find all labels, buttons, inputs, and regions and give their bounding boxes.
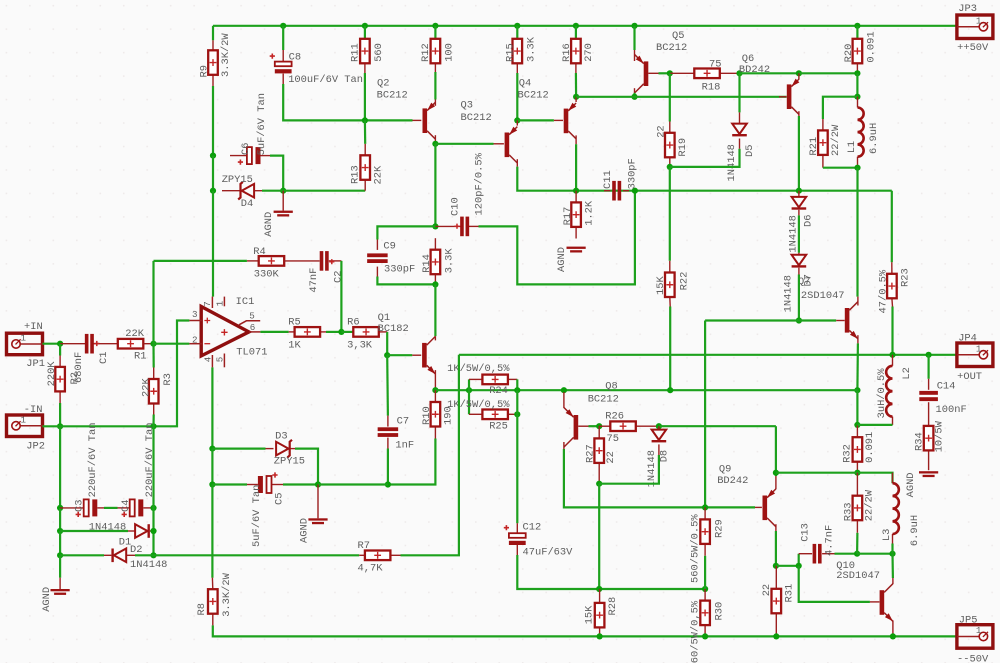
diode D8 <box>652 430 667 440</box>
wire -50V bottom rail <box>213 625 957 636</box>
wire pin Q2 base <box>413 119 422 121</box>
wire Q2 to Q3 base <box>435 143 493 145</box>
junction R28 bottom <box>597 633 603 639</box>
resistor R34 pins <box>928 414 930 426</box>
wire driver base rail y=96.8 <box>576 96 787 98</box>
junction D6 top <box>796 188 802 194</box>
svg-text:5: 5 <box>249 310 255 321</box>
svg-text:6: 6 <box>250 322 256 333</box>
wire input gnd column <box>59 426 61 508</box>
wire <box>326 331 341 333</box>
svg-text:BC212: BC212 <box>588 394 619 406</box>
wire <box>387 449 389 485</box>
svg-text:R28: R28 <box>607 597 619 616</box>
resistor R3 <box>149 379 159 404</box>
wire <box>152 415 154 427</box>
junction Q9 emitter row <box>773 470 779 476</box>
transistor Q9 <box>763 496 768 521</box>
svg-text:Q5: Q5 <box>672 30 684 42</box>
junction D7/Q7 base <box>796 317 802 323</box>
junction L1 bottom <box>854 165 860 171</box>
resistor R13 pins <box>364 144 366 155</box>
wire Q7/Q9 base column <box>704 321 706 508</box>
junction R15 top <box>514 23 520 29</box>
resistor R22 pins <box>669 261 671 273</box>
svg-text:R13: R13 <box>349 165 361 184</box>
diode D2 pins <box>104 554 111 556</box>
svg-text:C2: C2 <box>333 271 345 283</box>
wire to R4 <box>154 260 247 262</box>
wire <box>59 403 61 426</box>
op-amp pin 4 <box>211 355 213 367</box>
connector JP1 <box>7 333 43 355</box>
junction R24 right <box>514 387 520 393</box>
transistor Q7 emitter stub <box>857 335 859 343</box>
svg-text:D5: D5 <box>744 145 756 157</box>
wire to C9 top <box>377 226 435 239</box>
svg-text:R30: R30 <box>713 602 725 621</box>
wire R26 row to Q9 emitter corner <box>659 425 776 427</box>
svg-text:330pF: 330pF <box>627 158 639 189</box>
capacitor C11 <box>612 181 616 201</box>
junction Q7 emitter/driver rail <box>854 387 860 393</box>
transistor Q10 collector stub <box>892 578 894 584</box>
junction R12 top <box>432 23 438 29</box>
svg-text:4.7nF: 4.7nF <box>823 525 835 556</box>
junction R27/D8 bottom <box>596 481 602 487</box>
transistor Q8 emitter stub <box>563 392 565 408</box>
wire pin Q10 base <box>870 601 880 603</box>
op-amp pin 1 <box>223 297 225 307</box>
svg-text:+OUT: +OUT <box>957 371 982 383</box>
svg-text:47/0.5%: 47/0.5% <box>878 269 890 313</box>
svg-text:D6: D6 <box>802 215 814 227</box>
wire <box>364 73 366 120</box>
svg-text:C3: C3 <box>74 500 86 512</box>
resistor R31 pins <box>775 566 777 589</box>
resistor R4 pins <box>247 260 259 262</box>
svg-text:C9: C9 <box>383 240 395 252</box>
wire <box>468 379 470 390</box>
transistor Q6 emitter stub <box>798 73 800 79</box>
wire +50V top rail <box>213 25 957 27</box>
svg-text:JP5: JP5 <box>959 615 978 627</box>
junction R11/R13 <box>362 117 368 123</box>
svg-text:BD242: BD242 <box>739 64 770 76</box>
svg-text:C4: C4 <box>120 500 132 512</box>
resistor R19 pins <box>669 122 671 133</box>
resistor R24 <box>482 375 508 385</box>
transistor Q9 collector stub <box>775 524 777 531</box>
svg-text:75: 75 <box>607 433 619 445</box>
wire R7 to output rail corner <box>401 355 459 556</box>
wire R27 column down <box>598 484 600 589</box>
resistor R18 <box>694 69 720 79</box>
capacitor C8 <box>275 62 292 67</box>
wire to L3 <box>857 473 892 484</box>
wire to D3 <box>212 448 265 450</box>
svg-text:22: 22 <box>656 125 668 137</box>
junction R14/C9 bottom <box>432 281 438 287</box>
op-amp pin 6 <box>249 331 261 333</box>
wire Q10 collector up <box>891 554 894 578</box>
svg-text:0.091: 0.091 <box>865 31 877 62</box>
wire JP2 to op-amp pin3 <box>43 321 190 427</box>
capacitor C13 <box>813 544 817 564</box>
resistor R22 <box>665 273 675 298</box>
wire C6 to D4 node <box>270 156 283 191</box>
wire <box>659 72 670 74</box>
resistor R2 pins <box>59 356 61 367</box>
inductor L1 <box>858 108 864 157</box>
op-amp pin 3 <box>189 320 202 322</box>
wire C2 down to output <box>340 261 342 332</box>
wire C8 to Q2 base <box>283 84 412 120</box>
resistor R12 <box>431 39 441 64</box>
wire down to C12 <box>516 414 518 523</box>
wire to R20 <box>799 72 858 74</box>
svg-text:C8: C8 <box>289 51 301 63</box>
svg-text:JP4: JP4 <box>958 333 977 345</box>
svg-text:JP2: JP2 <box>26 441 45 453</box>
svg-text:ZPY15: ZPY15 <box>222 174 253 186</box>
capacitor C7 <box>378 427 399 431</box>
wire <box>282 26 284 50</box>
transistor Q2 collector stub <box>434 135 436 144</box>
svg-text:22: 22 <box>761 584 773 596</box>
junction D4/AGND <box>280 188 286 194</box>
transistor Q10 <box>880 590 885 615</box>
resistor R20 pins <box>856 63 858 73</box>
diode D5 pins <box>739 112 741 123</box>
transistor Q5 emitter stub <box>634 50 636 61</box>
svg-text:220uF/6V Tan: 220uF/6V Tan <box>87 423 99 498</box>
svg-text:10/5W: 10/5W <box>934 420 946 452</box>
wire C12 bottom row y=589 <box>517 555 705 589</box>
svg-text:R34: R34 <box>914 432 926 451</box>
ground AGND output <box>919 471 938 473</box>
svg-text:D4: D4 <box>241 198 253 210</box>
wire <box>60 554 104 556</box>
resistor R11 pins <box>364 38 366 40</box>
connector JP3 <box>957 15 993 39</box>
junction D4/R9 column <box>210 188 216 194</box>
svg-text:R12: R12 <box>420 43 432 62</box>
svg-text:120pF/0.5%: 120pF/0.5% <box>474 152 486 215</box>
svg-text:R23: R23 <box>900 268 912 287</box>
wire R22 down to driver rail <box>669 307 671 391</box>
junction R3 bottom <box>150 423 156 429</box>
junction C13 corner <box>796 563 802 569</box>
svg-text:R24: R24 <box>489 385 508 397</box>
junction D1 left <box>57 528 63 534</box>
svg-text:R33: R33 <box>843 502 855 521</box>
wire Q7 base rail <box>705 319 836 321</box>
junction L2 top <box>889 352 895 358</box>
svg-text:47nF: 47nF <box>308 268 320 293</box>
ground stub <box>282 191 284 211</box>
svg-text:7: 7 <box>202 301 213 307</box>
connector JP4 <box>957 343 993 367</box>
svg-text:22/2W: 22/2W <box>830 124 842 156</box>
junction Q5 collector <box>631 94 637 100</box>
svg-text:100nF: 100nF <box>936 404 967 416</box>
svg-text:L1: L1 <box>846 141 858 153</box>
junction R16 top <box>573 23 579 29</box>
junction C14 top <box>926 352 932 358</box>
wire to Q1 base <box>387 354 412 356</box>
connector JP5 <box>957 625 993 649</box>
wire pin Q4 base <box>554 119 563 121</box>
zener diode D3 <box>276 442 288 456</box>
svg-text:Q8: Q8 <box>605 380 617 392</box>
inductor L2 pins <box>892 355 894 366</box>
svg-text:R22: R22 <box>678 272 690 291</box>
svg-text:BC212: BC212 <box>461 112 492 124</box>
svg-text:R18: R18 <box>702 81 721 93</box>
op-amp pin 5 <box>239 321 260 325</box>
svg-text:JP1: JP1 <box>26 358 45 370</box>
svg-text:C6: C6 <box>240 143 252 155</box>
resistor R30 <box>700 601 710 626</box>
svg-text:R19: R19 <box>677 138 689 157</box>
resistor R17 <box>571 202 581 227</box>
junction R18/D5 <box>736 70 742 76</box>
junction D1 right <box>150 528 156 534</box>
resistor R16 <box>571 39 581 64</box>
transistor Q8 collector stub <box>563 442 565 449</box>
junction Q9 collector/R31/C13 <box>773 563 779 569</box>
svg-text:C1: C1 <box>98 352 110 364</box>
op-amp pin 5 bottom <box>223 354 225 368</box>
junction R1/R3/R4/pin2 <box>150 341 156 347</box>
svg-text:AGND: AGND <box>299 518 311 543</box>
wire to C7 <box>386 355 389 415</box>
capacitor C12 pins <box>516 523 518 533</box>
capacitor C1 pins <box>60 343 85 345</box>
junction R29/R30 <box>702 586 708 592</box>
junction C2/output <box>338 329 344 335</box>
junction R29 top <box>702 504 708 510</box>
junction R20 bottom <box>854 70 860 76</box>
resistor R15 pins <box>516 63 518 73</box>
resistor R9 pins <box>212 40 214 50</box>
wire to op-amp pin2 <box>154 343 190 345</box>
svg-text:1: 1 <box>214 300 225 306</box>
wire <box>104 507 118 509</box>
wire C10 feedback Z path <box>479 191 635 285</box>
wire <box>575 26 577 39</box>
capacitor C4 pins <box>118 507 130 509</box>
diode D2 <box>114 549 126 563</box>
wire pin Q1 base <box>412 354 421 356</box>
resistor R9 <box>208 50 218 75</box>
resistor R14 pins <box>434 238 436 250</box>
capacitor C1 <box>85 334 89 354</box>
wire Q8 collector to Q9 base <box>564 449 755 507</box>
transistor Q4 <box>564 109 569 134</box>
svg-text:270: 270 <box>583 43 595 62</box>
svg-text:6.9uH: 6.9uH <box>909 515 921 546</box>
svg-text:R14: R14 <box>421 254 433 273</box>
resistor R33 <box>853 496 863 521</box>
capacitor C2 pins <box>284 260 319 262</box>
junction L3 bottom/Q10 collector <box>889 551 895 557</box>
svg-text:R20: R20 <box>843 44 855 63</box>
svg-text:47uF/63V: 47uF/63V <box>523 546 574 558</box>
inductor L3 pins <box>892 473 894 484</box>
svg-text:R1: R1 <box>134 351 146 363</box>
svg-text:R9: R9 <box>199 65 211 77</box>
capacitor C3 <box>84 499 89 516</box>
svg-text:560: 560 <box>373 43 385 62</box>
wire between D6 D7 <box>798 215 800 252</box>
svg-text:1K: 1K <box>288 340 301 352</box>
junction Q6 emitter <box>796 70 802 76</box>
junction R25 right <box>514 411 520 417</box>
svg-text:IC1: IC1 <box>236 296 255 308</box>
wire <box>633 26 635 50</box>
svg-text:R5: R5 <box>288 317 300 329</box>
svg-text:0.091: 0.091 <box>864 432 876 463</box>
diode D1 pins <box>128 530 135 532</box>
svg-text:330pF: 330pF <box>384 264 415 276</box>
inductor L1 pins <box>857 97 859 108</box>
svg-text:22K: 22K <box>125 328 144 340</box>
junction R32 bottom <box>854 470 860 476</box>
wire to Q6 emitter <box>740 72 799 74</box>
wire D7 to Q7 base node <box>798 275 800 321</box>
svg-text:Q2: Q2 <box>377 78 389 90</box>
wire Q7 emitter to R32 <box>856 390 858 425</box>
svg-text:R16: R16 <box>561 43 573 62</box>
junction Q5 base/R19 <box>667 70 673 76</box>
svg-text:+IN: +IN <box>24 321 43 333</box>
wire <box>857 553 892 555</box>
resistor R27 <box>594 438 604 463</box>
junction C8 top <box>280 23 286 29</box>
op-amp IC1 <box>201 307 249 356</box>
wire <box>60 530 128 532</box>
resistor R30 pins <box>704 589 706 601</box>
junction C3 left <box>57 505 63 511</box>
capacitor C6 <box>247 147 252 164</box>
wire <box>516 73 518 120</box>
wire <box>43 343 61 345</box>
wire VAS rail to R23 <box>891 191 893 263</box>
transistor Q10 emitter stub <box>892 620 894 636</box>
svg-text:75: 75 <box>709 58 721 70</box>
svg-text:C14: C14 <box>937 380 956 392</box>
svg-text:3.3K/2W: 3.3K/2W <box>220 33 232 77</box>
svg-text:1N4148: 1N4148 <box>783 275 795 312</box>
wire <box>59 508 61 531</box>
capacitor C7 pins <box>387 416 389 427</box>
wire <box>669 73 671 121</box>
capacitor C10 pins <box>435 225 460 227</box>
svg-text:22: 22 <box>605 451 617 463</box>
svg-text:C7: C7 <box>397 416 409 428</box>
junction R15/Q3 emitter <box>514 117 520 123</box>
junction Q10 emitter <box>890 633 896 639</box>
transistor Q4 collector stub <box>575 135 577 144</box>
wire driver rail y=390 <box>435 389 857 391</box>
junction R16/Q4 emitter <box>573 94 579 100</box>
ground stub <box>59 578 61 589</box>
svg-text:1nF: 1nF <box>395 439 414 451</box>
resistor R28 pins <box>599 589 601 603</box>
resistor R11 <box>360 39 370 64</box>
ground AGND mid <box>308 518 327 520</box>
svg-text:2SD1047: 2SD1047 <box>801 290 845 302</box>
transistor Q3 collector stub <box>516 159 518 166</box>
resistor R20 <box>853 39 863 64</box>
capacitor C4 <box>130 499 135 516</box>
transistor Q5 <box>644 61 649 86</box>
resistor R5 <box>295 327 321 337</box>
resistor R4 <box>259 256 285 266</box>
resistor R29 pins <box>704 507 706 519</box>
transistor Q5 collector stub <box>634 88 636 93</box>
svg-text:BC212: BC212 <box>518 90 549 102</box>
wire <box>59 344 61 356</box>
resistor R6 pins <box>379 331 387 333</box>
transistor Q6 collector stub <box>798 111 800 116</box>
junction Q2 collector <box>432 141 438 147</box>
wire <box>152 344 154 368</box>
wire emitter bus <box>776 472 858 474</box>
wire pin Q9 base <box>755 506 762 508</box>
resistor R1 <box>118 339 144 349</box>
svg-text:-IN: -IN <box>24 404 43 416</box>
junction Q5 emitter top <box>631 23 637 29</box>
wire L2 bottom <box>857 424 892 426</box>
diode D8 pins <box>658 426 660 429</box>
wire R3 bottom column <box>152 426 154 555</box>
inductor L2 <box>886 366 892 417</box>
wire R6 corner down <box>386 332 388 355</box>
junction R11 top <box>362 23 368 29</box>
junction L1 top <box>854 94 860 100</box>
resistor R31 <box>772 589 782 614</box>
wire <box>516 390 518 414</box>
resistor R5 pins <box>289 331 295 333</box>
svg-text:5uF/6V Tan: 5uF/6V Tan <box>251 485 263 547</box>
svg-text:R11: R11 <box>350 43 362 62</box>
resistor R28 <box>595 603 605 628</box>
svg-text:R10: R10 <box>421 406 433 425</box>
wire R10 bottom <box>388 439 436 485</box>
wire <box>341 331 353 333</box>
diode D1 <box>135 524 147 538</box>
transistor Q2 <box>423 108 428 133</box>
svg-text:R3: R3 <box>162 373 174 385</box>
svg-text:C12: C12 <box>523 521 542 533</box>
wire R21 bottom to L1 <box>823 167 858 169</box>
wire output rail y=354.8 <box>459 354 957 356</box>
resistor R3 pins <box>153 368 155 380</box>
ground AGND input <box>51 589 70 591</box>
wire pin Q3 base <box>494 143 504 145</box>
wire R23 to output rail <box>891 307 893 355</box>
junction C7 bottom <box>385 481 391 487</box>
wire D8 to R27 <box>599 455 659 484</box>
wire D4 to R13 <box>262 190 365 192</box>
wire <box>704 556 706 589</box>
svg-text:Q9: Q9 <box>719 464 731 476</box>
wire <box>468 390 470 414</box>
wire R12 to Q2 emitter <box>434 72 436 100</box>
